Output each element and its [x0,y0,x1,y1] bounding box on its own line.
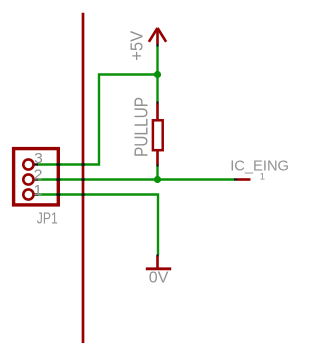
svg-text:2: 2 [34,167,43,184]
svg-text:0V: 0V [149,269,169,286]
svg-text:PULLUP: PULLUP [131,97,152,157]
svg-text:1: 1 [260,172,265,183]
svg-text:3: 3 [34,150,43,167]
svg-text:+5V: +5V [127,30,147,61]
svg-text:JP1: JP1 [37,211,58,228]
svg-text:1: 1 [33,182,42,199]
